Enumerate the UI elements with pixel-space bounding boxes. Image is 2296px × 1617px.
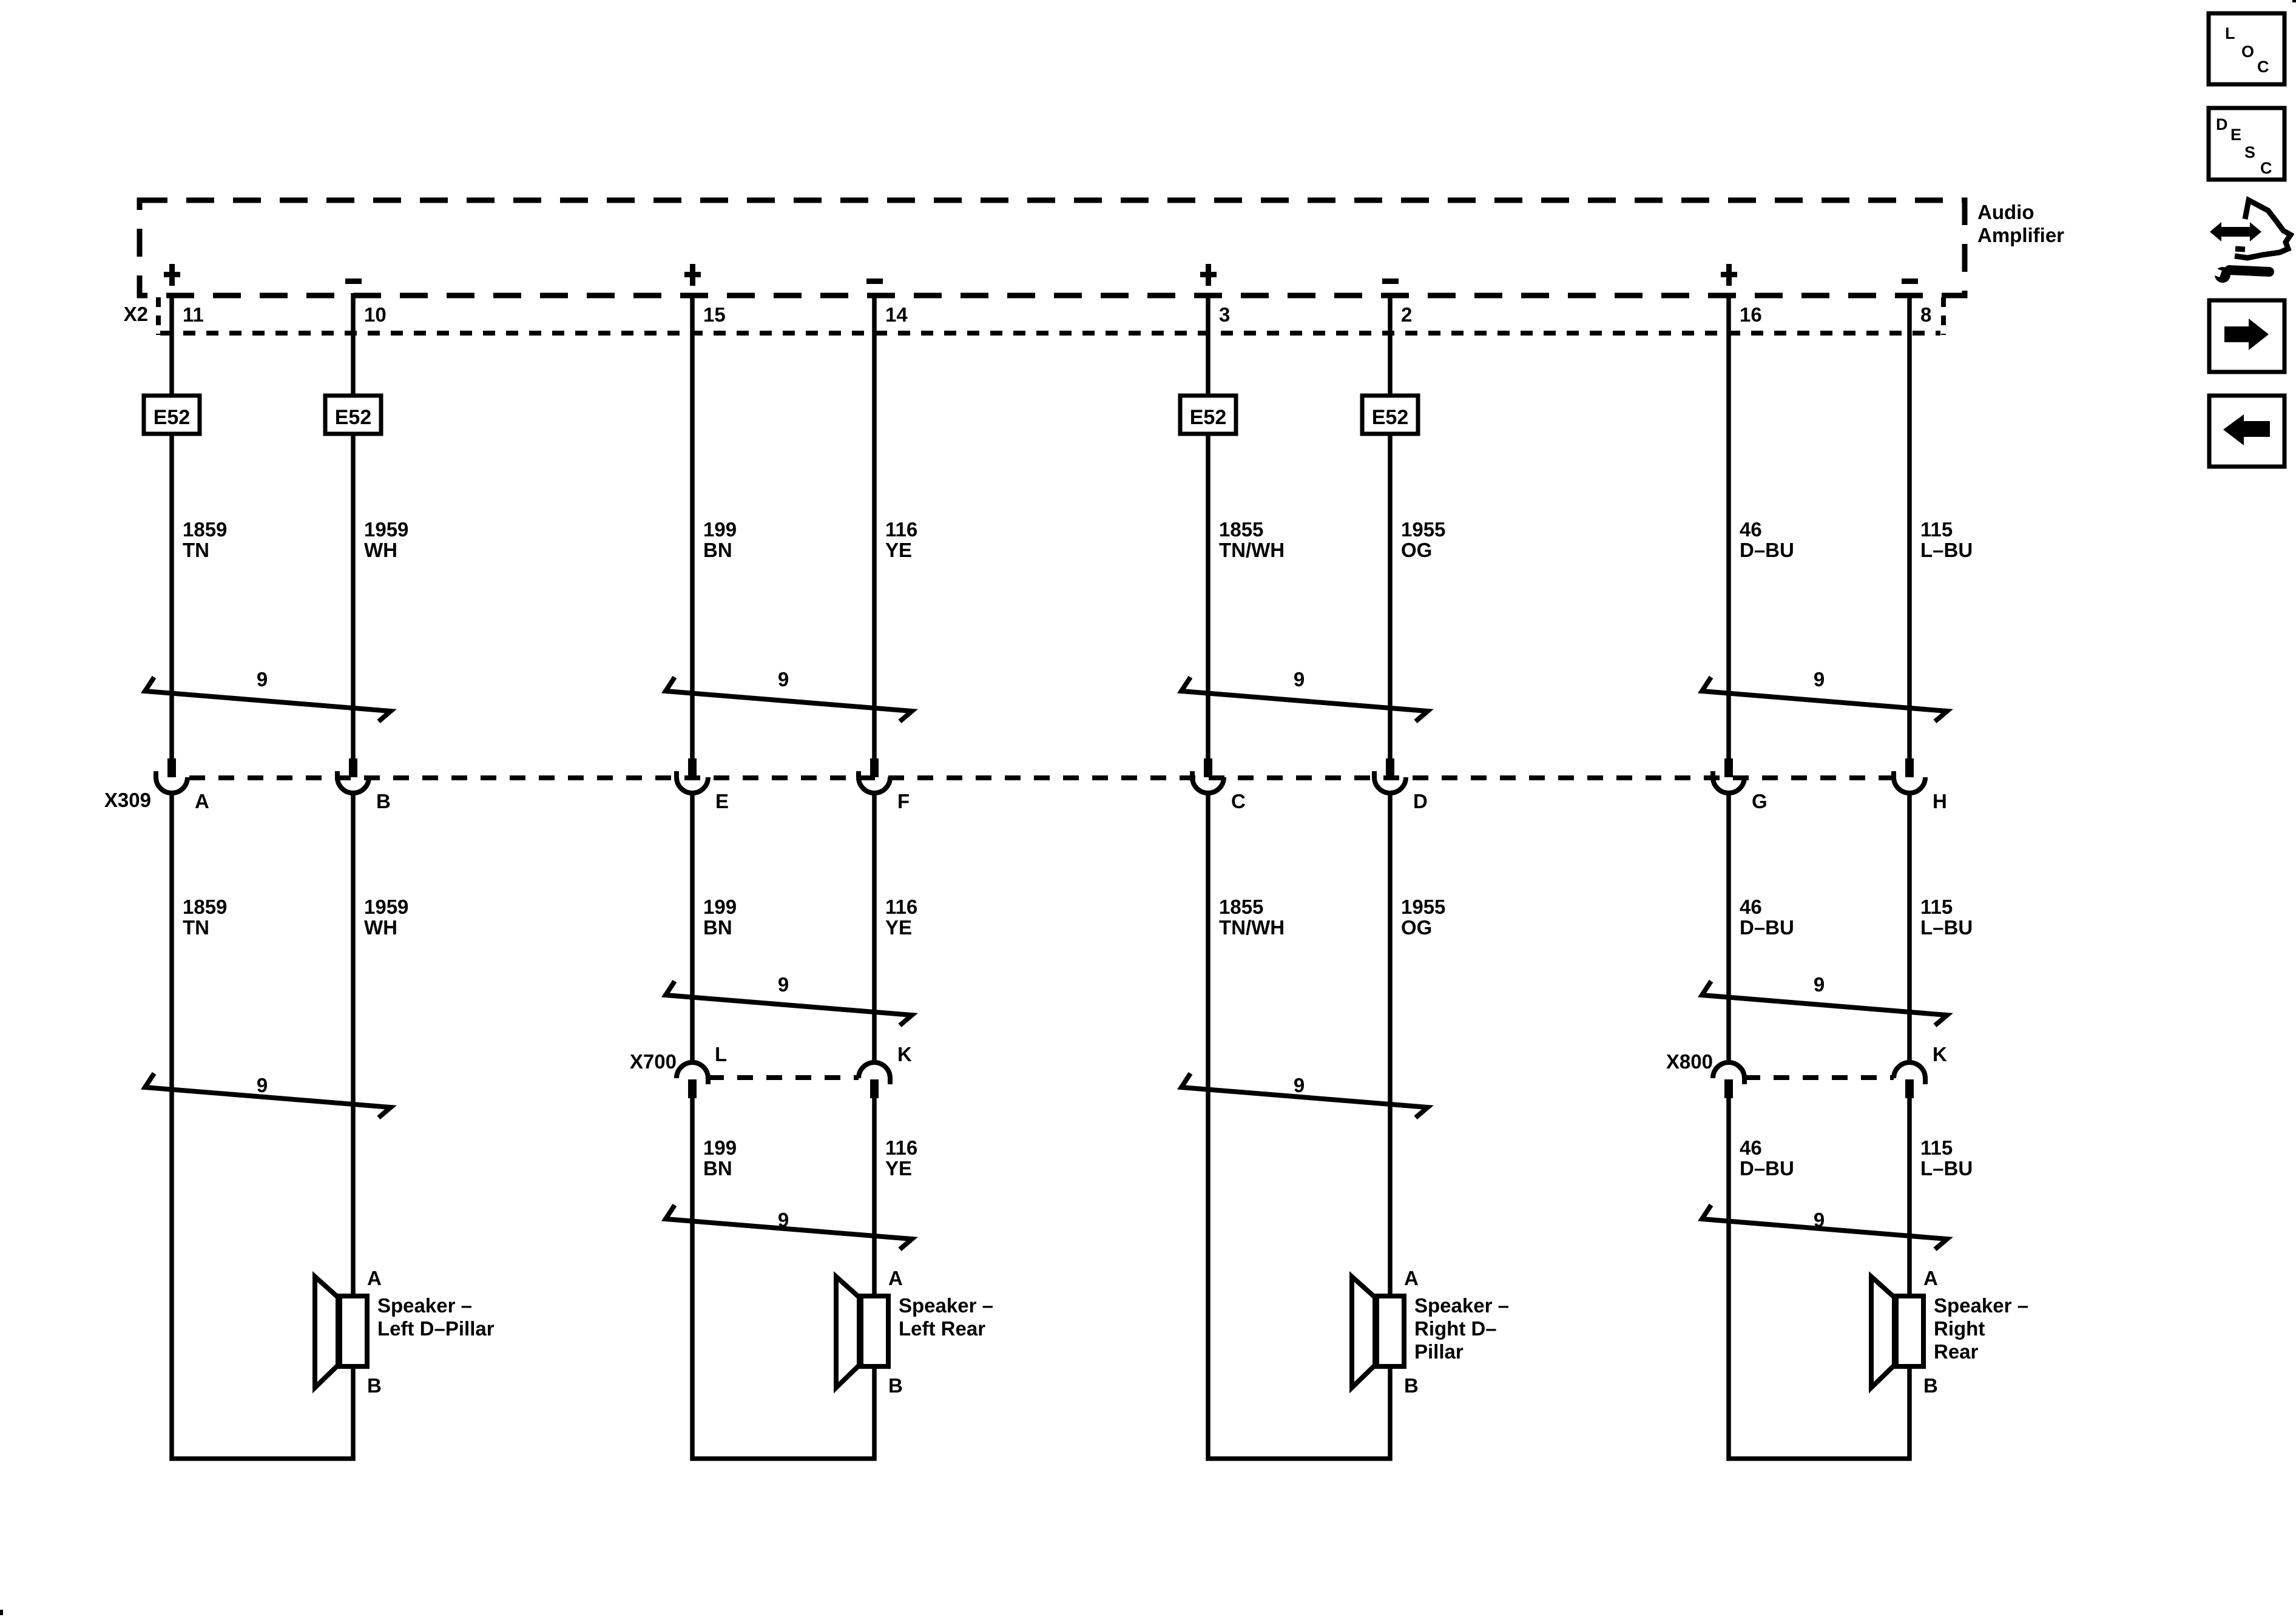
svg-text:B: B (1404, 1374, 1419, 1397)
svg-text:9: 9 (257, 1074, 268, 1096)
connector X2 dotted line (160, 331, 1940, 336)
wire circuit 1959 WH upper segment (351, 293, 356, 760)
svg-text:A: A (888, 1267, 903, 1289)
amplifier output polarity − wire 2 (345, 279, 362, 284)
X700 terminal pin rect wire x=1441 (870, 1079, 879, 1098)
svg-text:116: 116 (885, 1136, 917, 1159)
svg-text:K: K (1933, 1043, 1947, 1065)
svg-text:YE: YE (885, 539, 912, 561)
svg-text:E52: E52 (335, 406, 372, 429)
svg-text:199: 199 (703, 518, 737, 541)
svg-text:TN/WH: TN/WH (1219, 539, 1285, 561)
svg-text:C: C (2260, 159, 2272, 177)
svg-text:1859: 1859 (183, 518, 227, 541)
svg-text:E52: E52 (1190, 406, 1227, 429)
back arrow box (2209, 396, 2284, 467)
wire left segment group 3 to speaker loop (1208, 791, 1390, 1459)
connector X2 left stub (156, 297, 161, 335)
wire circuit 46 D–BU upper segment (1726, 293, 1731, 760)
X309 terminal D pin symbol (1386, 758, 1394, 777)
svg-text:B: B (1923, 1374, 1938, 1397)
svg-text:2: 2 (1401, 303, 1412, 326)
svg-text:L: L (2225, 24, 2235, 42)
svg-text:D–BU: D–BU (1740, 539, 1794, 561)
svg-text:16: 16 (1740, 303, 1762, 326)
svg-text:9: 9 (778, 668, 789, 690)
svg-text:116: 116 (885, 896, 917, 918)
svg-text:YE: YE (885, 1157, 912, 1180)
svg-text:BN: BN (703, 539, 732, 561)
splice E52 on wire at x=1991 (1180, 396, 1236, 434)
twisted pair symbol row1 group 3 (1181, 677, 1428, 721)
svg-text:1855: 1855 (1219, 896, 1263, 918)
twisted pair symbol row2 group 3 (1181, 1073, 1428, 1118)
svg-text:115: 115 (1920, 896, 1953, 918)
svg-text:A: A (367, 1267, 382, 1289)
page corner top-right mark (2292, 0, 2296, 2)
twisted pair symbol row2 group 1 (145, 1073, 391, 1118)
svg-text:E: E (2230, 126, 2241, 144)
wire left segment group 1 to speaker loop (172, 791, 353, 1459)
amplifier output polarity − wire 6 (1382, 279, 1399, 284)
connector X700 dashed line (708, 1075, 859, 1080)
svg-text:B: B (376, 790, 391, 812)
svg-text:46: 46 (1740, 896, 1762, 918)
speaker Speaker – Left D–Pillar symbol (315, 1277, 338, 1388)
svg-text:9: 9 (1814, 668, 1825, 690)
service/repair icon stub (2235, 249, 2245, 249)
svg-text:115: 115 (1920, 518, 1953, 541)
svg-text:H: H (1933, 790, 1947, 812)
svg-text:9: 9 (1814, 973, 1825, 996)
svg-text:F: F (897, 790, 910, 812)
svg-text:1859: 1859 (183, 896, 227, 918)
svg-text:14: 14 (885, 303, 908, 326)
svg-text:A: A (195, 790, 209, 812)
svg-text:A: A (1923, 1267, 1938, 1289)
svg-text:X700: X700 (630, 1050, 677, 1073)
svg-text:9: 9 (1294, 668, 1305, 690)
Audio Amplifier dashed box (140, 200, 1965, 295)
connector X800 dashed line (1744, 1075, 1894, 1080)
svg-text:1955: 1955 (1401, 896, 1445, 918)
amplifier output polarity − wire 4 (866, 279, 883, 284)
svg-text:Right: Right (1934, 1317, 1985, 1340)
svg-text:Speaker –: Speaker – (1934, 1294, 2028, 1317)
wire right segment group 4 X800 to speaker A (1907, 1098, 1912, 1296)
svg-text:E52: E52 (154, 406, 191, 429)
svg-text:B: B (367, 1374, 382, 1397)
svg-text:X309: X309 (104, 789, 151, 811)
svg-text:TN: TN (183, 539, 209, 561)
svg-text:OG: OG (1401, 916, 1432, 939)
svg-text:L–BU: L–BU (1920, 916, 1973, 939)
DESC thumbnail box (2209, 108, 2284, 180)
X700 terminal socket arc wire x=1441 (859, 1062, 890, 1078)
X800 terminal socket arc wire x=2849 (1713, 1062, 1744, 1078)
connector X2 right stub (1941, 297, 1946, 335)
svg-text:G: G (1752, 790, 1768, 812)
svg-text:B: B (888, 1374, 903, 1397)
svg-text:Pillar: Pillar (1414, 1340, 1464, 1363)
svg-text:Rear: Rear (1934, 1340, 1979, 1363)
svg-text:X800: X800 (1666, 1050, 1713, 1073)
speaker Speaker – Right Rear symbol (1871, 1277, 1894, 1388)
svg-text:9: 9 (1294, 1074, 1305, 1096)
svg-text:Audio: Audio (1977, 201, 2034, 223)
X700 terminal pin rect wire x=1141 (688, 1079, 697, 1098)
svg-text:9: 9 (257, 668, 268, 690)
svg-text:199: 199 (703, 1136, 737, 1159)
svg-text:BN: BN (703, 916, 732, 939)
amplifier output polarity − wire 8 (1902, 279, 1918, 284)
svg-text:3: 3 (1219, 303, 1230, 326)
svg-text:46: 46 (1740, 1136, 1762, 1159)
X800 terminal pin rect wire x=3147 (1905, 1079, 1914, 1098)
wire right segment group 2 X700 to speaker A (872, 1098, 877, 1296)
LOC thumbnail box (2209, 13, 2284, 84)
svg-text:L–BU: L–BU (1920, 539, 1973, 561)
wire circuit 116 YE upper segment (872, 293, 877, 760)
svg-text:9: 9 (1814, 1209, 1825, 1231)
svg-text:Speaker –: Speaker – (377, 1294, 472, 1317)
splice E52 on wire at x=283 (144, 396, 200, 434)
amplifier output polarity + wire 5 (1206, 264, 1211, 286)
connector X309 dashed line (189, 775, 1892, 780)
svg-text:S: S (2244, 143, 2255, 161)
twisted pair symbol row3 group 2 (666, 1205, 912, 1249)
svg-text:L–BU: L–BU (1920, 1157, 1973, 1180)
wire circuit 115 L–BU upper segment (1907, 293, 1912, 760)
svg-text:Left D–Pillar: Left D–Pillar (377, 1317, 495, 1340)
svg-text:D–BU: D–BU (1740, 1157, 1794, 1180)
svg-text:8: 8 (1920, 303, 1931, 326)
svg-text:TN/WH: TN/WH (1219, 916, 1285, 939)
forward arrow box (2209, 300, 2284, 372)
svg-text:Amplifier: Amplifier (1977, 224, 2064, 246)
service/repair icon wrench (2215, 267, 2230, 283)
X309 terminal B pin symbol (349, 758, 357, 777)
X309 terminal E pin symbol (688, 758, 697, 777)
page corner dot (0, 1610, 3, 1615)
svg-text:1955: 1955 (1401, 518, 1445, 541)
svg-text:WH: WH (364, 539, 397, 561)
splice E52 on wire at x=582 (325, 396, 381, 434)
svg-text:199: 199 (703, 896, 737, 918)
svg-text:15: 15 (703, 303, 726, 326)
svg-text:1959: 1959 (364, 518, 408, 541)
svg-text:46: 46 (1740, 518, 1762, 541)
twisted pair symbol row3 group 4 (1702, 1205, 1947, 1249)
svg-text:OG: OG (1401, 539, 1432, 561)
speaker Speaker – Right D– Pillar symbol (1352, 1277, 1375, 1388)
wire left segment group 4 X309 to X800 (1726, 791, 1731, 1062)
wire circuit 199 BN upper segment (690, 293, 695, 760)
service/repair icon double arrow (2210, 222, 2261, 241)
svg-text:C: C (2257, 58, 2269, 76)
svg-text:L: L (715, 1043, 727, 1065)
svg-text:Speaker –: Speaker – (899, 1294, 993, 1317)
wire left segment group 2 X309 to X700 (690, 791, 695, 1062)
speaker Speaker – Left Rear symbol (836, 1277, 859, 1388)
wire right segment group 2 X309 to X700 (872, 791, 877, 1062)
wire left segment group 4 X800 to speaker loop (1729, 1098, 1909, 1459)
twisted pair symbol row2 group 4 (1702, 981, 1947, 1025)
X309 terminal A pin symbol (167, 758, 176, 777)
X309 terminal F pin symbol (870, 758, 879, 777)
wire circuit 1859 TN upper segment (169, 293, 174, 760)
X309 terminal C pin symbol (1204, 758, 1212, 777)
wire right segment group 3 X309 to speaker A (1388, 791, 1393, 1296)
svg-text:A: A (1404, 1267, 1419, 1289)
svg-text:D–BU: D–BU (1740, 916, 1794, 939)
X800 terminal pin rect wire x=2849 (1724, 1079, 1733, 1098)
wire circuit 1855 TN/WH upper segment (1206, 293, 1210, 760)
svg-text:WH: WH (364, 916, 397, 939)
svg-text:11: 11 (183, 303, 204, 326)
twisted pair symbol row1 group 4 (1702, 677, 1947, 721)
svg-text:9: 9 (778, 1209, 789, 1231)
amplifier output polarity + wire 7 (1726, 264, 1732, 286)
amplifier output polarity + wire 3 (690, 264, 695, 286)
svg-text:X2: X2 (124, 303, 148, 325)
svg-text:Speaker –: Speaker – (1414, 1294, 1509, 1317)
service/repair icon panel outline (2235, 200, 2291, 258)
svg-text:D: D (2216, 115, 2228, 133)
svg-text:YE: YE (885, 916, 912, 939)
X309 terminal H pin symbol (1905, 758, 1914, 777)
X700 terminal socket arc wire x=1141 (677, 1062, 708, 1078)
svg-text:116: 116 (885, 518, 917, 541)
svg-text:D: D (1413, 790, 1428, 812)
svg-text:1959: 1959 (364, 896, 408, 918)
wire right segment group 4 X309 to X800 (1907, 791, 1912, 1062)
svg-text:1855: 1855 (1219, 518, 1263, 541)
twisted pair symbol row1 group 1 (145, 677, 391, 721)
svg-text:O: O (2241, 42, 2254, 61)
svg-text:K: K (897, 1043, 912, 1065)
svg-text:9: 9 (778, 973, 789, 996)
svg-text:BN: BN (703, 1157, 732, 1180)
svg-text:Left Rear: Left Rear (899, 1317, 985, 1340)
twisted pair symbol row1 group 2 (666, 677, 912, 721)
svg-text:115: 115 (1920, 1136, 1953, 1159)
splice E52 on wire at x=2291 (1362, 396, 1418, 434)
svg-text:E: E (715, 790, 729, 812)
svg-text:10: 10 (364, 303, 387, 326)
wire right segment group 1 X309 to speaker A (351, 791, 356, 1296)
twisted pair symbol row2 group 2 (666, 981, 912, 1025)
svg-text:C: C (1231, 790, 1246, 812)
wire left segment group 2 X700 to speaker loop (692, 1098, 874, 1459)
svg-text:Right D–: Right D– (1414, 1317, 1497, 1340)
svg-text:TN: TN (183, 916, 209, 939)
svg-text:E52: E52 (1372, 406, 1409, 429)
amplifier output polarity + wire 1 (169, 264, 175, 286)
X800 terminal socket arc wire x=3147 (1894, 1062, 1925, 1078)
wire circuit 1955 OG upper segment (1388, 293, 1393, 760)
X309 terminal G pin symbol (1724, 758, 1733, 777)
